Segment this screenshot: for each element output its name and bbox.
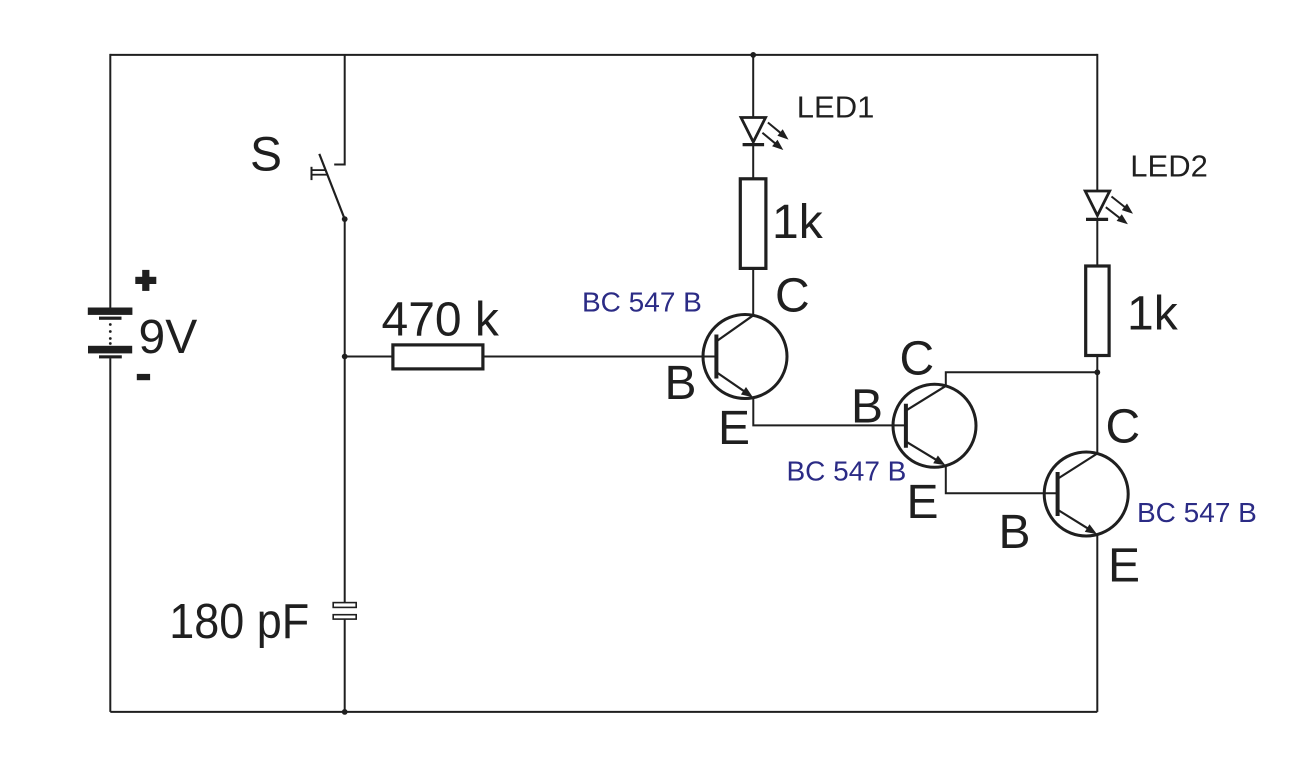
svg-text:S: S <box>250 129 282 182</box>
wire switch to capacitor <box>344 219 346 603</box>
svg-text:LED1: LED1 <box>797 90 875 125</box>
wire 1k to Q1 collector <box>752 268 754 316</box>
svg-text:B: B <box>999 506 1031 559</box>
wire left rail lower (battery - to bottom) <box>109 358 111 712</box>
wire 470k left lead <box>345 356 393 358</box>
wire right rail top to LED2 <box>1096 54 1098 192</box>
transistor Q1 BC547B <box>703 315 787 399</box>
wire Q3 emitter to bottom rail <box>1096 535 1098 712</box>
wire Q2 collector to right rail <box>946 372 1098 386</box>
battery minus symbol <box>137 374 150 380</box>
wire Q2 emitter to Q3 base <box>946 466 1057 494</box>
LED1 diode symbol <box>741 118 766 145</box>
svg-text:1k: 1k <box>772 196 824 249</box>
junction capacitor bottom rail <box>342 709 348 715</box>
svg-text:B: B <box>665 357 697 410</box>
wire left rail upper (to battery +) <box>109 54 111 308</box>
wire top rail <box>110 54 1097 56</box>
wire bottom rail <box>110 711 1097 713</box>
LED2 diode symbol <box>1085 191 1110 219</box>
svg-text:E: E <box>907 476 939 529</box>
svg-text:180 pF: 180 pF <box>169 595 309 649</box>
battery 9V plates <box>88 308 133 359</box>
resistor 470k <box>393 345 483 369</box>
svg-text:BC 547 B: BC 547 B <box>582 287 702 318</box>
wire 470k to Q1 base <box>483 356 715 358</box>
wire capacitor to bottom rail <box>344 619 346 712</box>
svg-text:C: C <box>1106 401 1141 454</box>
resistor 1k (LED1) <box>740 179 766 269</box>
junction Q2 collector / right rail <box>1094 369 1100 375</box>
svg-text:BC 547 B: BC 547 B <box>787 455 907 486</box>
svg-text:E: E <box>718 402 750 455</box>
switch S plunger <box>312 167 328 180</box>
junction 470k branch <box>342 354 348 360</box>
svg-text:B: B <box>851 381 883 434</box>
wire Q1 emitter to Q2 base <box>753 398 904 426</box>
wire switch branch from top rail <box>334 55 345 165</box>
LED2 emission arrows <box>1106 197 1133 225</box>
resistor 1k (LED2) <box>1086 266 1109 356</box>
battery plus symbol <box>135 270 156 291</box>
svg-text:LED2: LED2 <box>1130 149 1208 184</box>
junction LED1 top <box>750 52 756 58</box>
capacitor 180pF plates <box>333 603 356 620</box>
svg-text:E: E <box>1108 540 1140 593</box>
wire Q3 collector up to junction <box>1096 372 1098 453</box>
switch S lever <box>319 154 344 219</box>
svg-text:C: C <box>775 269 810 322</box>
wire top to LED1 <box>752 55 754 118</box>
LED1 emission arrows <box>762 123 788 151</box>
svg-text:9V: 9V <box>139 311 198 364</box>
wire LED2 to 1k <box>1096 219 1098 266</box>
wire 1k to junction <box>1096 356 1098 373</box>
junction switch bottom <box>342 216 348 222</box>
svg-text:C: C <box>900 332 935 385</box>
svg-text:470 k: 470 k <box>382 293 500 346</box>
svg-text:BC 547 B: BC 547 B <box>1137 497 1257 528</box>
transistor Q2 BC547B <box>893 384 976 467</box>
svg-text:1k: 1k <box>1127 288 1179 341</box>
wire LED1 to 1k <box>752 145 754 179</box>
transistor Q3 BC547B <box>1044 452 1128 536</box>
